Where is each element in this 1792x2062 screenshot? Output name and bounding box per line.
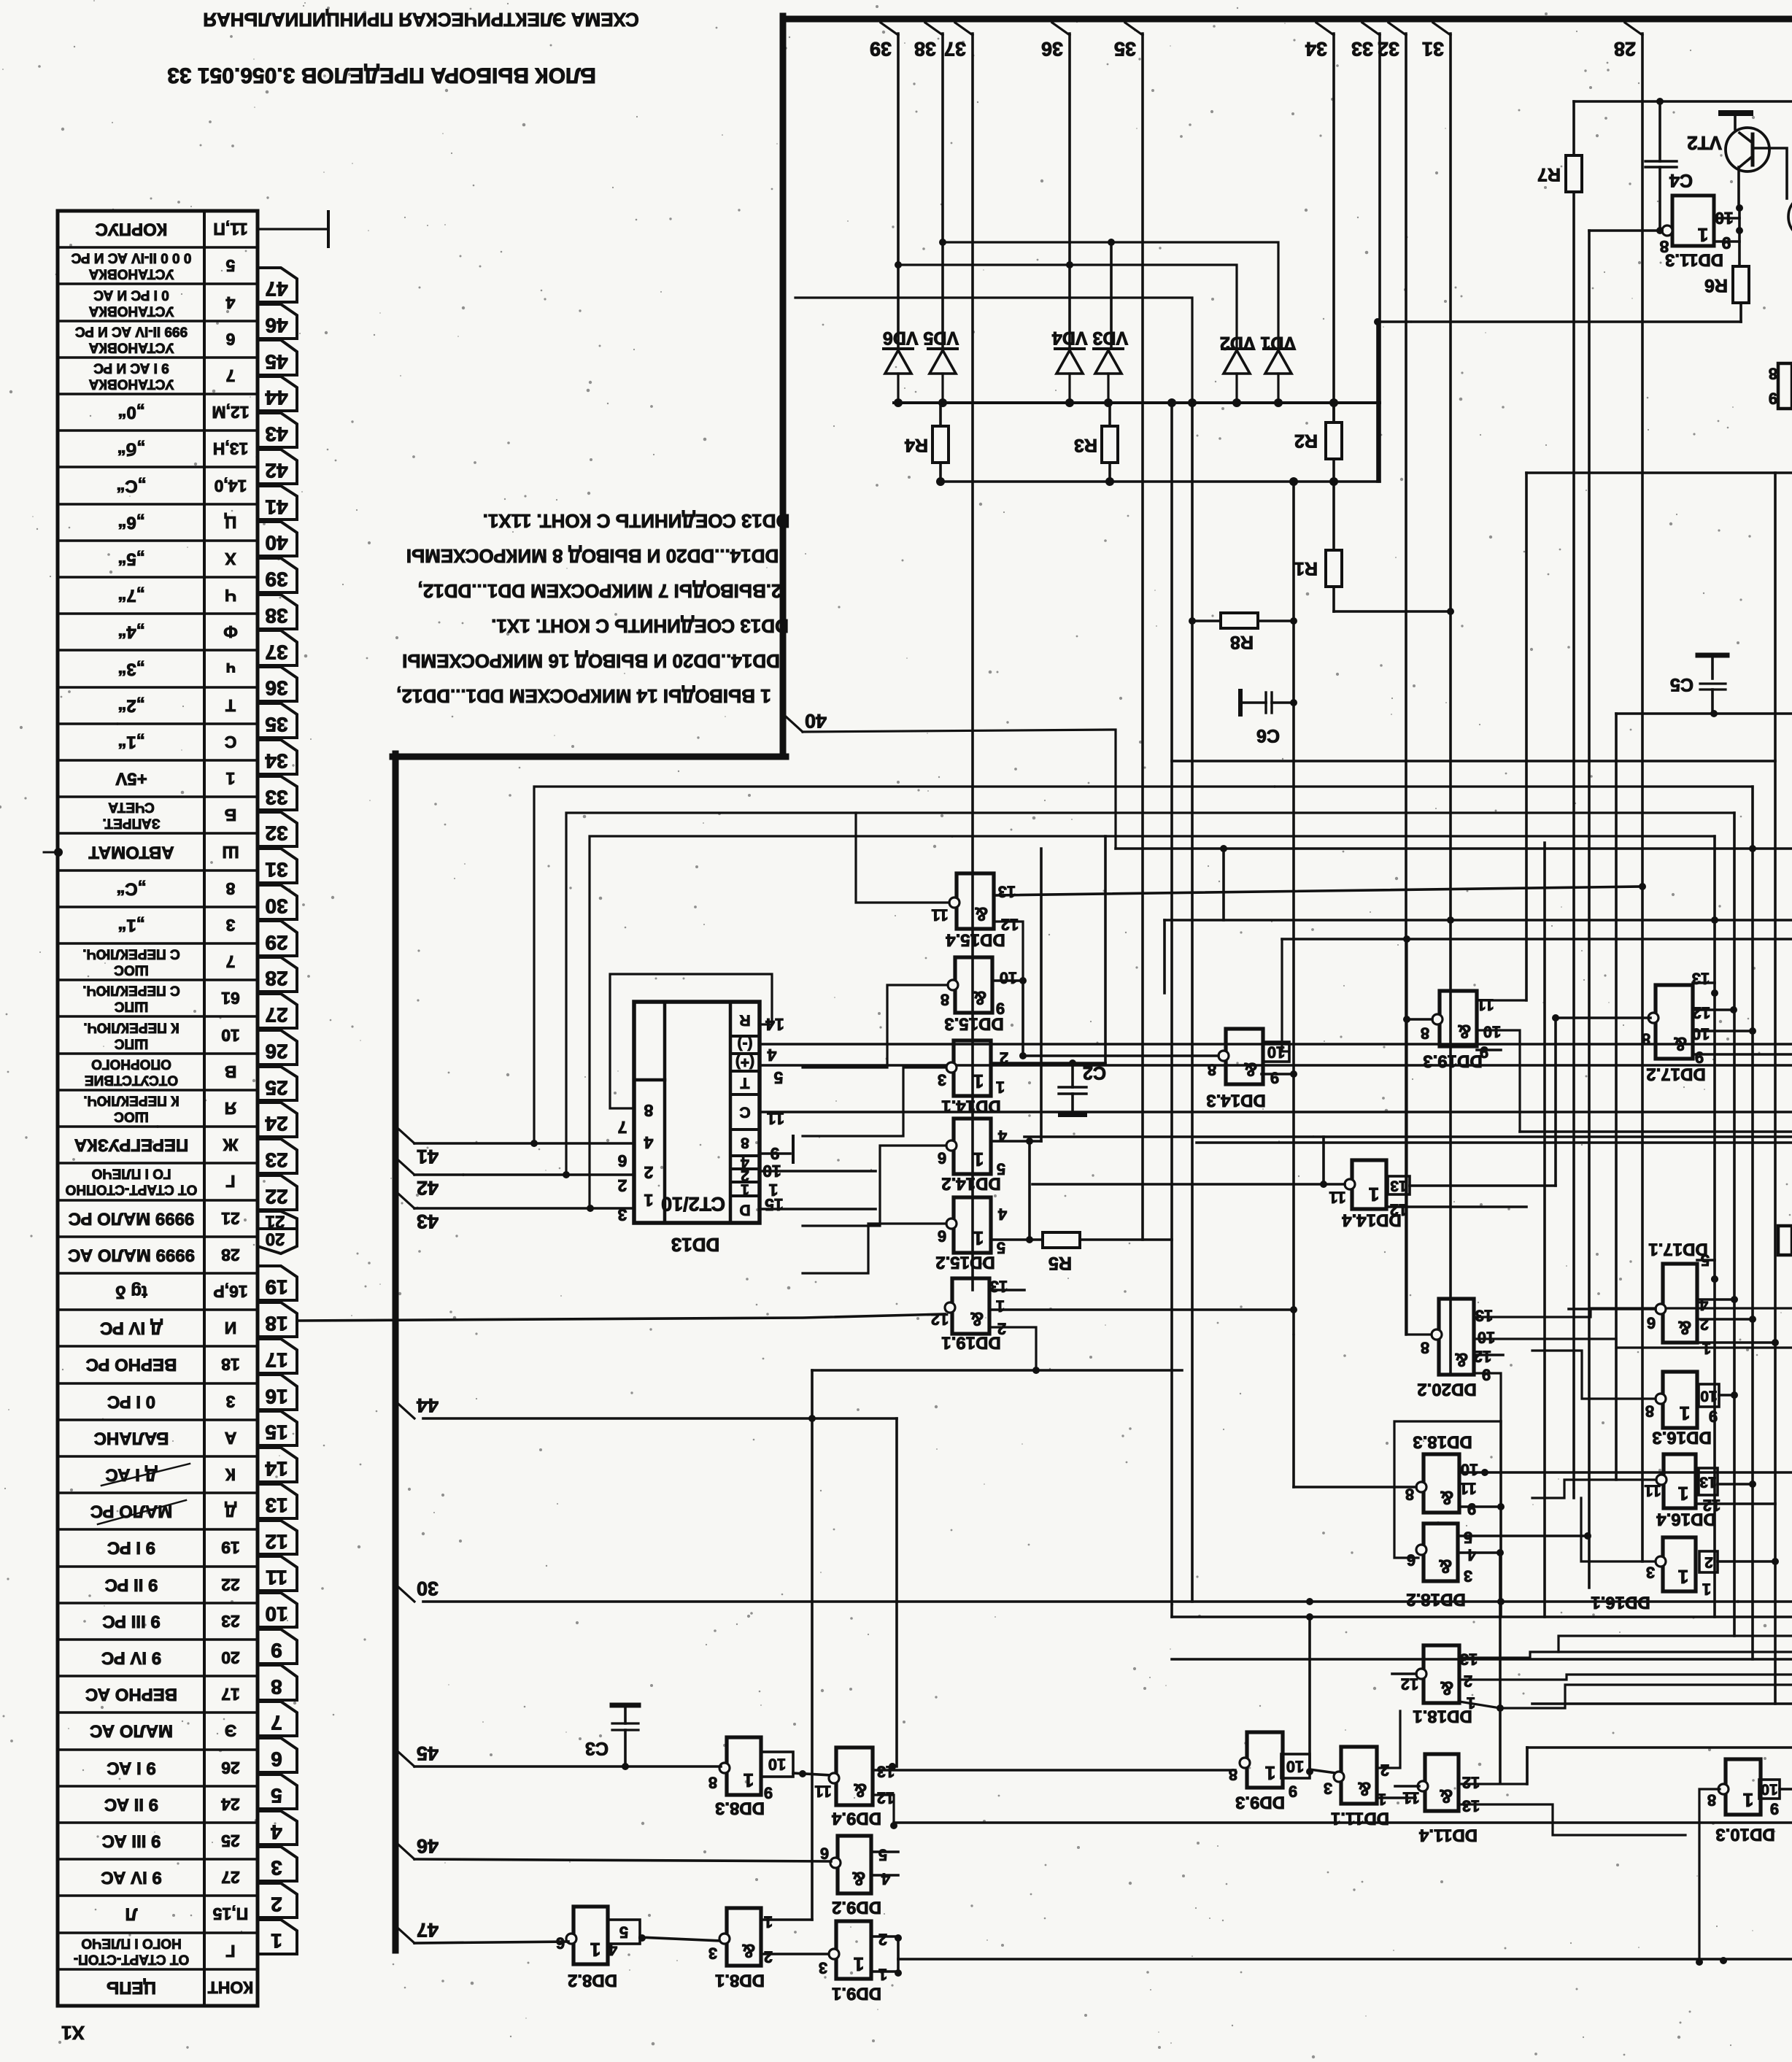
svg-text:30: 30 — [265, 895, 287, 918]
svg-text:6: 6 — [271, 1748, 282, 1771]
svg-text:R: R — [739, 1012, 750, 1029]
wire R6 bottom to row — [1739, 303, 1742, 322]
svg-text:12,М: 12,М — [212, 403, 249, 422]
svg-text:12: 12 — [1401, 1675, 1418, 1694]
riser x1596 — [1163, 920, 1166, 993]
svg-text:DD11.4: DD11.4 — [1418, 1826, 1478, 1845]
svg-text:DD8.3: DD8.3 — [715, 1799, 765, 1818]
svg-text:11: 11 — [814, 1783, 831, 1801]
long wire y2216 — [1172, 1615, 1792, 1618]
svg-text:С ПЕРЕКЛЮЧ.: С ПЕРЕКЛЮЧ. — [82, 983, 180, 998]
svg-text:ЦЕПЬ: ЦЕПЬ — [107, 1978, 156, 1998]
wire DD9.2 pin5 stub — [871, 1850, 898, 1853]
logic gate DD17.1 — [1663, 1264, 1697, 1343]
X1 contact tag 23 — [258, 1139, 297, 1173]
wire DD16.4 pin12 stub — [1696, 1502, 1775, 1505]
svg-text:2: 2 — [1380, 1761, 1389, 1780]
X1 contact tag 13 — [258, 1484, 297, 1518]
capacitor C3 — [612, 1703, 638, 1708]
wire DD18.2 pin5 stub — [1459, 1534, 1588, 1537]
capacitor C6 — [1238, 691, 1243, 714]
svg-text:DD17.2: DD17.2 — [1646, 1065, 1705, 1084]
X1 contact tag 14 — [258, 1448, 297, 1482]
svg-text:9 I АС И РС: 9 I АС И РС — [93, 360, 169, 376]
svg-text:31: 31 — [1422, 38, 1444, 60]
svg-text:НОГО I ПЛЕЧО: НОГО I ПЛЕЧО — [81, 1936, 181, 1951]
wire exit 46 from cable — [398, 1845, 414, 1859]
long wire y2498 — [894, 1821, 1792, 1824]
wire DD11.3 output to corner — [1589, 229, 1662, 232]
svg-text:„2“: „2“ — [117, 696, 144, 716]
svg-text:2: 2 — [878, 1931, 887, 1949]
logic gate DD9.1 — [836, 1921, 871, 1979]
svg-text:44: 44 — [265, 387, 288, 409]
wire DD13 pin15 stub — [760, 1208, 876, 1210]
svg-text:23: 23 — [221, 1612, 240, 1631]
X1 contact tag 17 — [258, 1339, 297, 1373]
hand strikethrough row МАЛО РС — [98, 1500, 186, 1524]
svg-text:&: & — [742, 1940, 756, 1962]
vertical bus x1606 — [1170, 403, 1173, 1617]
svg-text:К ПЕРЕКЛЮЧ.: К ПЕРЕКЛЮЧ. — [83, 1093, 179, 1108]
svg-text:АВТОМАТ: АВТОМАТ — [88, 843, 174, 862]
cable trunk lower vertical — [393, 754, 399, 1950]
wire exit 43 from cable — [398, 1194, 414, 1208]
diode VD3 — [1094, 347, 1123, 350]
svg-text:2: 2 — [618, 1176, 627, 1195]
svg-text:&: & — [852, 1868, 866, 1890]
svg-text:8: 8 — [1421, 1339, 1429, 1357]
wire top node row y139 — [1574, 100, 1792, 103]
wire DD17.1 input — [1569, 1308, 1656, 1310]
svg-text:„7“: „7“ — [117, 586, 144, 606]
svg-text:3: 3 — [1646, 1564, 1655, 1582]
svg-text:3: 3 — [708, 1945, 717, 1963]
svg-text:36: 36 — [1041, 38, 1063, 60]
bus wire riser w1 — [534, 787, 1753, 1143]
X1 contact tag 43 — [258, 413, 297, 447]
svg-text:C5: C5 — [1670, 674, 1693, 695]
wire exit 44 from cable — [398, 1404, 414, 1418]
svg-text:9: 9 — [1709, 1408, 1718, 1426]
resistor R7 — [1566, 155, 1582, 192]
cable trunk middle horizontal — [393, 754, 786, 760]
X1 contact tag 34 — [258, 740, 297, 774]
svg-text:999 II-IV АС И РС: 999 II-IV АС И РС — [75, 324, 188, 339]
svg-text:(-): (-) — [738, 1036, 753, 1053]
svg-text:1: 1 — [1369, 1183, 1379, 1205]
svg-text:18: 18 — [265, 1313, 287, 1335]
wire 43 run to DD13 — [414, 1207, 634, 1210]
svg-text:МАЛО РС: МАЛО РС — [90, 1502, 173, 1521]
svg-text:9 II РС: 9 II РС — [105, 1575, 158, 1595]
pin box 10 of DD8.3 — [761, 1752, 793, 1777]
svg-text:УСТАНОВКА: УСТАНОВКА — [88, 304, 174, 319]
vertical wire DD8.1 riser — [811, 1370, 814, 1920]
X1 contact tag 42 — [258, 449, 297, 484]
svg-text:БЛОК ВЫБОРА ПРЕДЕЛОВ 3.056.0: БЛОК ВЫБОРА ПРЕДЕЛОВ 3.056.051 33 — [167, 63, 596, 88]
wire R3 top/bottom — [1108, 403, 1111, 426]
vertical wire 31 long — [1449, 34, 1452, 1373]
pin box 13 of DD16.4 — [1699, 1468, 1718, 1495]
vertical bus through R8/C6 node — [1292, 482, 1295, 1487]
svg-text:1: 1 — [225, 769, 235, 788]
wire DD14.1 pin2 to C2 — [991, 1062, 1105, 1065]
wire 46 run — [414, 1859, 831, 1861]
X1 contact tag 15 — [258, 1411, 297, 1445]
X1 contact tag 27 — [258, 994, 297, 1028]
svg-text:„4“: „4“ — [117, 622, 144, 642]
logic gate DD14.3 — [1226, 1029, 1263, 1084]
wire DD8.2 out to DD8.1 — [640, 1937, 722, 1941]
wire DD17.1 pin stubs — [1697, 1298, 1734, 1301]
svg-text:11: 11 — [1477, 996, 1494, 1014]
svg-text:2: 2 — [644, 1163, 654, 1182]
svg-text:13: 13 — [990, 1278, 1008, 1296]
wire diode feed row C — [795, 298, 1192, 403]
svg-text:19: 19 — [221, 1538, 240, 1557]
svg-text:22: 22 — [265, 1186, 287, 1208]
svg-text:1: 1 — [644, 1191, 653, 1210]
svg-text:ЗАПРЕТ.: ЗАПРЕТ. — [102, 816, 160, 831]
wire exit 31 from top cable — [1433, 23, 1451, 35]
capacitor C4 — [1645, 160, 1677, 162]
vertical bus x2117 — [1543, 843, 1546, 1617]
wire DD19.3 pin10 staircase — [1477, 1030, 1520, 1132]
svg-text:4: 4 — [1467, 1546, 1476, 1564]
svg-text:14,0: 14,0 — [215, 476, 247, 495]
wire DD13 reset loop — [610, 974, 772, 1108]
svg-text:1 ВЫВОДЫ 14 МИКРОСХЕМ DD1...DD: 1 ВЫВОДЫ 14 МИКРОСХЕМ DD1...DD12, — [396, 685, 771, 707]
svg-text:36: 36 — [265, 677, 287, 700]
vertical wire x1515 — [1104, 836, 1107, 1063]
svg-text:31: 31 — [265, 859, 287, 881]
svg-text:+5V: +5V — [115, 769, 147, 789]
svg-text:ОПОРНОГО: ОПОРНОГО — [91, 1057, 171, 1072]
wire exit 28 from top cable — [1625, 23, 1642, 35]
svg-text:4: 4 — [997, 1205, 1007, 1224]
logic gate DD11.4 — [1425, 1754, 1459, 1811]
logic gate DD9.2 — [838, 1836, 871, 1893]
X1 contact tag 31 — [258, 849, 297, 883]
X1 contact tag 8 — [258, 1665, 297, 1700]
svg-text:1: 1 — [1378, 1791, 1386, 1809]
wire exit 30 from cable — [398, 1587, 414, 1602]
logic gate DD16.1 — [1663, 1537, 1696, 1591]
svg-text:9: 9 — [1467, 1500, 1476, 1518]
X1 contact tag 39 — [258, 558, 297, 592]
svg-text:DD11.3: DD11.3 — [1665, 250, 1723, 270]
svg-text:DD15.4: DD15.4 — [946, 930, 1005, 950]
wire DD9.1 node link — [897, 1936, 900, 1973]
svg-text:2: 2 — [1704, 1554, 1713, 1571]
svg-text:2.ВЫВОДЫ 7 МИКРОСХЕМ DD1...DD1: 2.ВЫВОДЫ 7 МИКРОСХЕМ DD1...DD12, — [418, 580, 782, 602]
svg-text:3: 3 — [938, 1071, 946, 1089]
svg-text:DD19.3: DD19.3 — [1423, 1051, 1482, 1071]
svg-text:C4: C4 — [1669, 170, 1693, 190]
svg-text:„6“: „6“ — [117, 513, 144, 533]
svg-text:Г: Г — [225, 1172, 235, 1191]
svg-text:1: 1 — [590, 1939, 600, 1961]
wire DD14.4 pin12 stub — [1386, 1205, 1526, 1208]
svg-text:13: 13 — [998, 883, 1016, 901]
svg-text:38: 38 — [265, 605, 287, 628]
svg-text:А: А — [225, 1429, 237, 1448]
svg-text:К ПЕРЕКЛЮЧ.: К ПЕРЕКЛЮЧ. — [83, 1020, 179, 1035]
svg-text:28: 28 — [1614, 38, 1636, 60]
vertical wire 34 to R2 — [1332, 34, 1335, 422]
svg-text:6: 6 — [618, 1151, 627, 1170]
svg-text:9999 МАЛО РС: 9999 МАЛО РС — [69, 1209, 195, 1229]
X1 contact tag 28 — [258, 957, 297, 992]
svg-text:13,Н: 13,Н — [213, 439, 249, 458]
svg-text:VT2: VT2 — [1687, 132, 1722, 154]
wire exit 38 from top cable — [925, 23, 943, 35]
resistor R5 — [1043, 1232, 1080, 1248]
svg-text:1: 1 — [1678, 1566, 1688, 1588]
wire DD11.3 inputs — [1714, 217, 1739, 220]
svg-text:2: 2 — [271, 1893, 282, 1916]
vertical link x2056 to DD11.4 — [1499, 1708, 1502, 1783]
wire 42 run to DD13 — [414, 1173, 634, 1176]
logic gate DD9.3 — [1247, 1732, 1283, 1788]
wire DD15.4 pin12 to DD15.3 pin10 — [994, 922, 1023, 981]
wire DD9.2 pin4 stub — [871, 1874, 898, 1877]
wire DD17.2 pin12 — [1693, 1008, 1734, 1011]
svg-text:9: 9 — [1769, 390, 1777, 408]
svg-text:6: 6 — [1407, 1551, 1416, 1569]
svg-text:3: 3 — [271, 1857, 282, 1880]
svg-text:VD3 VD4: VD3 VD4 — [1052, 328, 1128, 348]
wire DD20.2 output riser — [1407, 939, 1432, 1335]
vertical wire 28 long — [1641, 34, 1644, 1561]
X1 contact tag 1 — [258, 1920, 297, 1954]
svg-text:ВЕРНО АС: ВЕРНО АС — [85, 1685, 177, 1704]
X1 contact tag 9 — [258, 1629, 297, 1664]
svg-text:СХЕМА ЭЛЕКТРИЧЕСКАЯ ПРИНЦИПИА: СХЕМА ЭЛЕКТРИЧЕСКАЯ ПРИНЦИПИАЛЬНАЯ — [203, 9, 638, 31]
svg-text:ШОС: ШОС — [114, 1109, 149, 1124]
svg-text:„С“: „С“ — [116, 476, 146, 496]
X1 contact tag 16 — [258, 1375, 297, 1410]
svg-text:ОТ СТАРТ-СТОПНО: ОТ СТАРТ-СТОПНО — [66, 1182, 198, 1197]
svg-text:30: 30 — [417, 1578, 439, 1599]
svg-text:6: 6 — [938, 1227, 946, 1246]
svg-text:DD9.4: DD9.4 — [831, 1809, 881, 1829]
svg-text:1: 1 — [996, 1078, 1005, 1097]
svg-text:13: 13 — [1462, 1797, 1480, 1815]
svg-text:П,15: П,15 — [213, 1904, 249, 1923]
svg-text:8: 8 — [1642, 1030, 1650, 1049]
svg-text:&: & — [1244, 1059, 1258, 1081]
svg-text:47: 47 — [265, 278, 287, 301]
svg-text:8: 8 — [1769, 365, 1777, 383]
svg-text:&: & — [970, 1308, 984, 1330]
svg-text:8: 8 — [708, 1774, 717, 1792]
X1 contact tag 44 — [258, 377, 297, 411]
svg-text:DD18.2: DD18.2 — [1406, 1590, 1465, 1610]
svg-text:42: 42 — [417, 1177, 439, 1199]
svg-text:Ф: Ф — [223, 622, 238, 641]
svg-text:1: 1 — [996, 1297, 1005, 1316]
wire 47 run — [414, 1942, 568, 1943]
svg-text:ШОС: ШОС — [114, 962, 149, 978]
partial gate at sheet edge B — [1778, 1226, 1792, 1255]
vertical node 33-bus riser — [1376, 322, 1379, 482]
svg-text:Э: Э — [225, 1721, 236, 1740]
wire DD14.4 output long left — [1032, 1183, 1345, 1186]
svg-text:9: 9 — [1770, 1800, 1779, 1818]
long wire y2242 — [1559, 1636, 1792, 1652]
long wire y1551 — [1520, 1130, 1792, 1133]
svg-text:45: 45 — [265, 351, 287, 374]
wire DD15.4 pin13 long wire — [994, 887, 1642, 895]
wire DD18.1 pin1 staircase — [1459, 1685, 1792, 1708]
svg-text:12: 12 — [931, 1310, 949, 1329]
logic gate DD15.4 — [957, 873, 994, 929]
wire 40 run — [803, 730, 1116, 849]
svg-text:1: 1 — [1702, 1580, 1711, 1599]
partial gate at sheet edge A — [1778, 363, 1792, 409]
svg-text:Ц: Ц — [224, 513, 236, 532]
pin box 10 of DD16.3 — [1699, 1384, 1719, 1407]
riser x1677 — [1222, 849, 1225, 920]
svg-text:9: 9 — [1270, 1069, 1279, 1087]
svg-text:35: 35 — [265, 714, 287, 736]
svg-text:2: 2 — [1464, 1672, 1472, 1691]
wire DD8.3 out to DD9.4 — [793, 1773, 831, 1775]
wire DD17.2 pin13 — [1693, 981, 1715, 984]
logic gate DD19.1 — [952, 1278, 989, 1334]
svg-text:11: 11 — [1459, 1480, 1476, 1498]
svg-text:11: 11 — [1329, 1189, 1345, 1207]
wire DD15.3 pin10 node — [992, 979, 1023, 982]
svg-text:38: 38 — [914, 38, 936, 60]
svg-text:R3: R3 — [1074, 435, 1097, 455]
svg-text:9 IV РС: 9 IV РС — [101, 1648, 161, 1668]
X1 contact tag 5 — [258, 1775, 297, 1809]
svg-text:&: & — [1440, 1677, 1454, 1699]
wire DD20.2 pin9 staircase to DD18.2 — [1394, 1373, 1501, 1558]
svg-text:R7: R7 — [1537, 164, 1561, 185]
svg-text:12: 12 — [265, 1531, 287, 1553]
svg-text:VD1 VD2: VD1 VD2 — [1220, 333, 1296, 353]
chassis wire from KORPUS pin — [258, 228, 328, 230]
svg-text:23: 23 — [265, 1149, 287, 1172]
diode VD4 — [1055, 347, 1084, 350]
svg-text:1: 1 — [1698, 224, 1708, 246]
wire DD9.4 pin12 to long bus — [873, 1795, 894, 1823]
svg-text:61: 61 — [221, 989, 240, 1008]
wire DD19.1 pin2 staircase — [989, 1327, 1036, 1370]
wire VT2 base to edge transistor — [1753, 148, 1787, 198]
svg-text:26: 26 — [221, 1758, 240, 1777]
svg-text:8: 8 — [1645, 1402, 1654, 1421]
svg-text:ПЕРЕГРУЗКА: ПЕРЕГРУЗКА — [74, 1135, 189, 1155]
wire exit 34 from top cable — [1316, 23, 1334, 35]
svg-text:5: 5 — [271, 1785, 282, 1807]
wire R7 chain — [1572, 101, 1575, 155]
svg-text:7: 7 — [271, 1712, 282, 1734]
bus wire riser w2 — [566, 813, 1734, 1175]
X1 contact tag 41 — [258, 486, 297, 520]
wire DD16.4 pin13 node — [1718, 1483, 1753, 1486]
wire DD18.3 output from riser — [1294, 1486, 1416, 1488]
wire DD16.3 pin10 node — [1719, 1394, 1734, 1397]
resistor R2 — [1326, 422, 1342, 459]
svg-text:3: 3 — [226, 916, 236, 935]
X1 contact tag 40 — [258, 522, 297, 556]
wire diode feed row B — [898, 265, 1237, 349]
svg-text:DD15.3: DD15.3 — [944, 1014, 1003, 1034]
vertical x2092 upper — [1525, 473, 1528, 1000]
svg-text:47: 47 — [417, 1919, 439, 1941]
logic gate DD15.3 — [955, 957, 992, 1013]
long wire y1566 — [1197, 1141, 1792, 1144]
svg-text:37: 37 — [944, 38, 966, 60]
svg-text:СТ2/10: СТ2/10 — [661, 1193, 725, 1215]
wire DD11.1 pin2 riser — [1377, 1711, 1400, 1768]
svg-text:1: 1 — [744, 1769, 754, 1791]
resistor R4 — [932, 426, 949, 463]
svg-text:8: 8 — [1229, 1766, 1237, 1784]
svg-text:13: 13 — [1390, 1178, 1407, 1194]
svg-text:1: 1 — [973, 1227, 984, 1249]
wire DD20.2 pin13 staircase — [1474, 1308, 1792, 1317]
logic gate DD17.2 — [1656, 985, 1693, 1059]
wire DD18.1 pin13 staircase — [1459, 1652, 1792, 1658]
svg-text:9 III РС: 9 III РС — [102, 1612, 160, 1632]
X1 contact tag 35 — [258, 703, 297, 738]
svg-text:1: 1 — [741, 1181, 749, 1198]
svg-text:УСТАНОВКА: УСТАНОВКА — [88, 266, 174, 282]
svg-text:6: 6 — [1647, 1314, 1656, 1332]
svg-text:25: 25 — [265, 1077, 287, 1100]
vertical wire 44 drop x1229 — [895, 1418, 898, 1766]
svg-text:DD14.2: DD14.2 — [941, 1174, 1000, 1194]
svg-text:„0“: „0“ — [117, 403, 144, 422]
wire exit 45 from cable — [398, 1752, 414, 1766]
svg-text:DD18.3: DD18.3 — [1413, 1432, 1472, 1452]
long bus wire y1043 — [1172, 760, 1775, 762]
long wire y2274 — [1172, 1658, 1792, 1661]
svg-text:33: 33 — [265, 787, 287, 809]
logic gate DD14.1 — [954, 1040, 991, 1096]
svg-text:28: 28 — [265, 968, 287, 990]
svg-text:5: 5 — [225, 256, 235, 275]
svg-text:DD19.1: DD19.1 — [941, 1333, 1000, 1353]
pin box 10 of DD9.3 — [1281, 1754, 1310, 1778]
svg-text:11: 11 — [266, 1567, 287, 1589]
svg-text:14: 14 — [265, 1458, 288, 1480]
wire DD19.3 pin11 — [1477, 999, 1526, 1001]
vertical wire 33 to resistor bus — [1378, 34, 1381, 482]
wire DD15.2 output — [803, 1224, 946, 1273]
svg-text:34: 34 — [1305, 38, 1327, 60]
wire VT2 emitter down — [1737, 167, 1740, 208]
logic gate DD8.1 — [727, 1908, 761, 1966]
svg-text:3: 3 — [1324, 1780, 1332, 1798]
riser x1814 — [1322, 1137, 1325, 1184]
svg-text:R5: R5 — [1048, 1253, 1072, 1273]
svg-text:40: 40 — [805, 710, 827, 732]
svg-text:25: 25 — [221, 1831, 240, 1850]
svg-text:tg δ: tg δ — [115, 1282, 147, 1302]
wire DD16.3 output staircase — [1532, 1351, 1656, 1399]
pin box 2 of DD16.1 — [1699, 1551, 1718, 1572]
wire DD15.3 output staircase — [803, 985, 948, 1067]
long wire y1163 — [1116, 847, 1792, 850]
svg-text:1: 1 — [878, 1966, 887, 1984]
